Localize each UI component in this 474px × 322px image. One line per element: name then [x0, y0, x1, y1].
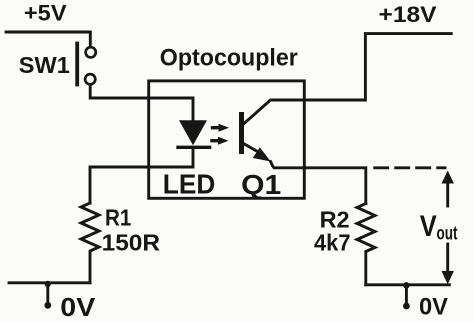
svg-text:0V: 0V — [419, 294, 448, 321]
svg-text:Optocoupler: Optocoupler — [160, 44, 298, 71]
svg-text:LED: LED — [163, 168, 216, 199]
svg-text:+5V: +5V — [24, 1, 67, 26]
svg-text:SW1: SW1 — [19, 52, 70, 78]
svg-text:out: out — [437, 223, 458, 244]
svg-text:V: V — [420, 210, 437, 243]
svg-text:R1: R1 — [105, 204, 131, 230]
svg-text:Q1: Q1 — [241, 169, 281, 200]
svg-text:+18V: +18V — [379, 2, 437, 27]
svg-text:150R: 150R — [102, 230, 161, 256]
svg-text:4k7: 4k7 — [314, 230, 351, 256]
svg-text:0V: 0V — [60, 292, 96, 322]
